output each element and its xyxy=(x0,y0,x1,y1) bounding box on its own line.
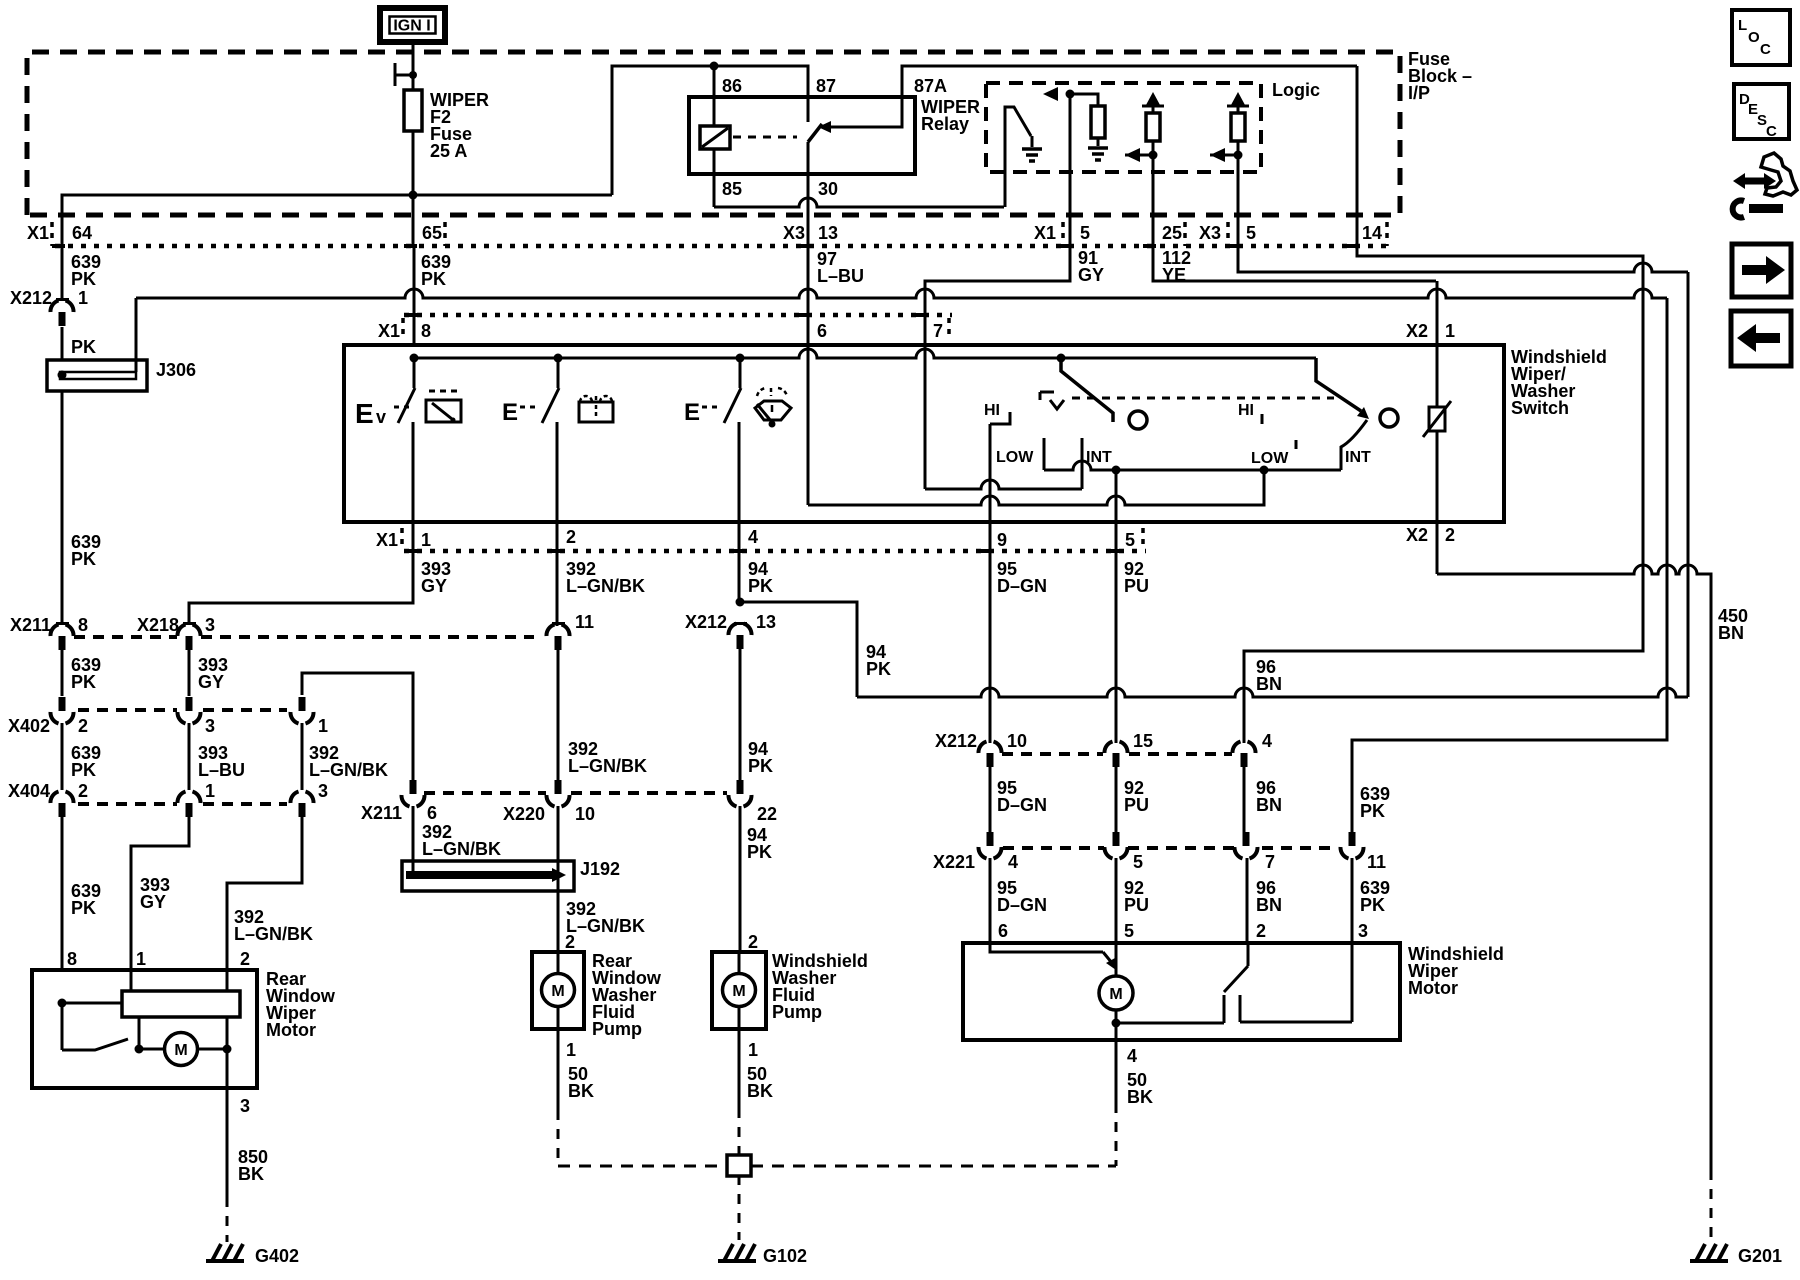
wire 94 PK y697 to logic X3-5 xyxy=(857,688,1688,697)
svg-text:PK: PK xyxy=(747,842,772,862)
relay coil mech dashes xyxy=(733,136,797,139)
rear washer switch S2 xyxy=(542,358,559,423)
svg-text:3: 3 xyxy=(240,1096,250,1116)
svg-text:J192: J192 xyxy=(580,859,620,879)
right contact curve LOW-INT xyxy=(1341,420,1367,470)
logic wire 112 YE to X2-1 xyxy=(1153,155,1436,281)
svg-text:G201: G201 xyxy=(1738,1246,1782,1266)
svg-text:HI: HI xyxy=(984,402,1000,419)
svg-text:8: 8 xyxy=(67,949,77,969)
svg-text:X1: X1 xyxy=(1034,223,1056,243)
rear wiper switch S1 xyxy=(398,358,415,423)
wire 50 BK rear pump xyxy=(557,1029,560,1110)
Rear Window Wiper Motor box xyxy=(32,970,257,1088)
dashed row X402 xyxy=(78,708,177,712)
dashed ground bus xyxy=(558,1165,727,1168)
Windshield Wiper Washer Switch box xyxy=(344,345,1504,522)
mechanical link dashes xyxy=(1072,397,1334,400)
svg-text:2: 2 xyxy=(1445,525,1455,545)
svg-text:L–GN/BK: L–GN/BK xyxy=(568,756,647,776)
svg-text:3: 3 xyxy=(205,716,215,736)
delay thermistor xyxy=(1429,407,1445,431)
wire IGN I to fuse F2 xyxy=(412,42,415,90)
icon double arrow wrench xyxy=(1733,173,1776,189)
logic resistor R2 112 YE xyxy=(1142,106,1164,113)
wire 50 BK windshield pump xyxy=(738,1029,741,1108)
svg-text:86: 86 xyxy=(722,76,742,96)
motor gearbox rect xyxy=(122,991,240,1017)
svg-text:PK: PK xyxy=(71,672,96,692)
svg-text:4: 4 xyxy=(1008,852,1018,872)
svg-text:J306: J306 xyxy=(156,360,196,380)
svg-text:3: 3 xyxy=(205,615,215,635)
wire thermistor to X2-2 xyxy=(1436,431,1439,574)
Fuse Block - I/P dashed outline xyxy=(27,52,1400,215)
svg-text:5: 5 xyxy=(1246,223,1256,243)
switch internal bus xyxy=(414,349,1316,358)
svg-text:PU: PU xyxy=(1124,795,1149,815)
svg-text:11: 11 xyxy=(1367,852,1386,872)
svg-text:X212: X212 xyxy=(10,288,52,308)
wire 392 pin2 to conn 11 xyxy=(556,522,559,626)
svg-text:25: 25 xyxy=(1162,223,1182,243)
windshield washer icon xyxy=(755,401,791,420)
wire junction down to X1-65 xyxy=(412,195,415,246)
wires below X404 xyxy=(61,817,64,971)
svg-text:BK: BK xyxy=(747,1081,773,1101)
svg-text:3: 3 xyxy=(318,781,328,801)
wire 14 to 96 BN net xyxy=(1244,66,1643,743)
wire 94 PK branch to riser xyxy=(740,602,857,697)
svg-text:8: 8 xyxy=(421,321,431,341)
wire 392 below J192 to rear washer pump xyxy=(557,861,560,952)
svg-text:15: 15 xyxy=(1133,731,1153,751)
svg-text:PK: PK xyxy=(71,898,96,918)
svg-text:BK: BK xyxy=(1127,1087,1153,1107)
svg-text:M: M xyxy=(732,983,745,1000)
wire 393 GY pin1 to X218-3 xyxy=(189,522,413,624)
ground G201 xyxy=(1690,1259,1728,1263)
relay switch arm pin30 xyxy=(808,124,822,142)
wire relay 85 to logic switch xyxy=(714,198,1004,207)
connector X212-4 xyxy=(1232,742,1240,754)
wire LOW line y470 xyxy=(1044,461,1341,470)
dotted row X1 top of switch xyxy=(404,313,952,318)
dashed 50 BK to ground bus xyxy=(1115,1103,1118,1166)
svg-text:D–GN: D–GN xyxy=(997,576,1047,596)
svg-text:X2: X2 xyxy=(1406,321,1428,341)
wires into X212 row xyxy=(989,697,992,743)
wire 392 branch X402-1 to X211-6 xyxy=(302,673,413,780)
svg-text:6: 6 xyxy=(817,321,827,341)
svg-text:BN: BN xyxy=(1256,674,1282,694)
svg-text:D–GN: D–GN xyxy=(997,895,1047,915)
svg-text:E: E xyxy=(355,398,374,429)
pin8 wire inside xyxy=(58,999,67,1008)
svg-text:1: 1 xyxy=(748,1040,758,1060)
svg-text:BK: BK xyxy=(568,1081,594,1101)
wire pin7 to INT y489 xyxy=(925,480,1082,489)
svg-text:X402: X402 xyxy=(8,716,50,736)
wire fuse-node to relay 86/87 xyxy=(612,66,808,195)
svg-text:GY: GY xyxy=(421,576,447,596)
svg-text:14: 14 xyxy=(1362,223,1382,243)
svg-text:X211: X211 xyxy=(10,615,51,635)
svg-text:X1: X1 xyxy=(376,530,398,550)
connector X221-5 xyxy=(1113,832,1120,846)
wires between rows xyxy=(989,767,992,832)
svg-text:25 A: 25 A xyxy=(430,141,467,161)
connector X221-7 xyxy=(1243,832,1250,846)
windshield washer switch S3 xyxy=(724,358,741,423)
wire 94 PK pin4 to X212-13 xyxy=(738,522,741,602)
svg-text:C: C xyxy=(1766,123,1777,140)
svg-text:M: M xyxy=(1109,986,1122,1003)
svg-text:1: 1 xyxy=(421,530,431,550)
svg-text:PK: PK xyxy=(1360,801,1385,821)
svg-text:6: 6 xyxy=(998,921,1008,941)
svg-text:I/P: I/P xyxy=(1408,83,1430,103)
svg-text:7: 7 xyxy=(933,321,943,341)
svg-text:GY: GY xyxy=(198,672,224,692)
rear wiper icon xyxy=(426,400,461,422)
svg-text:GY: GY xyxy=(140,892,166,912)
washer bottle icon xyxy=(579,402,613,422)
junction dot xyxy=(409,191,418,200)
svg-text:X212: X212 xyxy=(935,731,977,751)
svg-text:PK: PK xyxy=(866,659,891,679)
dashed row X212 right xyxy=(1002,752,1103,756)
separator ticks xyxy=(50,222,54,246)
power tag IGN I xyxy=(380,8,445,42)
svg-text:PK: PK xyxy=(71,760,96,780)
wire junction to X1-64 xyxy=(62,195,413,246)
fuse holder clip xyxy=(395,63,413,86)
svg-text:87A: 87A xyxy=(914,76,947,96)
svg-text:L–GN/BK: L–GN/BK xyxy=(566,576,645,596)
svg-text:30: 30 xyxy=(818,179,838,199)
logic wire X3-5 to 94 PK riser xyxy=(1238,155,1688,272)
svg-text:6: 6 xyxy=(427,803,437,823)
wire 639 PK right drop to X221-11 xyxy=(1352,298,1667,838)
svg-text:PU: PU xyxy=(1124,895,1149,915)
svg-text:BN: BN xyxy=(1256,795,1282,815)
svg-text:LOW: LOW xyxy=(996,449,1034,466)
relay 87A contact wire xyxy=(831,66,1357,127)
connector X221-4 xyxy=(987,832,994,846)
park switch rear motor xyxy=(62,1039,128,1050)
motor pin4 output xyxy=(1115,1023,1118,1040)
svg-text:5: 5 xyxy=(1125,530,1135,550)
svg-text:BK: BK xyxy=(238,1164,264,1184)
svg-text:L–GN/BK: L–GN/BK xyxy=(422,839,501,859)
splice J192 xyxy=(402,861,574,891)
ground G102 xyxy=(718,1259,756,1263)
svg-text:2: 2 xyxy=(565,932,575,952)
svg-text:22: 22 xyxy=(757,804,777,824)
svg-text:E: E xyxy=(684,399,700,426)
svg-text:X221: X221 xyxy=(933,852,975,872)
svg-text:2: 2 xyxy=(78,781,88,801)
svg-text:10: 10 xyxy=(1007,731,1027,751)
svg-text:C: C xyxy=(1760,41,1771,58)
svg-text:D–GN: D–GN xyxy=(997,795,1047,815)
wiper rotary switch right arm xyxy=(1316,358,1361,411)
svg-text:2: 2 xyxy=(240,949,250,969)
wire pin5 LOW to X1-5 xyxy=(1115,470,1118,743)
svg-text:8: 8 xyxy=(78,615,88,635)
svg-text:X2: X2 xyxy=(1406,525,1428,545)
wire 97LBU pin6 to LOW net y505 xyxy=(808,347,1264,505)
icon right arrow box xyxy=(1732,244,1791,297)
svg-text:L–BU: L–BU xyxy=(817,266,864,286)
connector X404-3 xyxy=(290,792,298,804)
svg-text:X3: X3 xyxy=(1199,223,1221,243)
svg-text:10: 10 xyxy=(575,804,595,824)
dashed row X221 xyxy=(1003,846,1104,850)
svg-text:85: 85 xyxy=(722,179,742,199)
svg-text:2: 2 xyxy=(566,527,576,547)
svg-text:IGN I: IGN I xyxy=(393,18,430,35)
svg-text:1: 1 xyxy=(318,716,328,736)
svg-text:Pump: Pump xyxy=(592,1019,642,1039)
WIPER Relay box xyxy=(689,97,915,174)
switch S1 output pin 1 xyxy=(412,422,415,522)
connector X212-10 xyxy=(978,742,986,754)
wire X2-1 112YE into switch xyxy=(1436,281,1439,407)
wire 639 PK X1-65 to switch pin 8 xyxy=(413,246,416,347)
svg-text:BN: BN xyxy=(1718,623,1744,643)
wires below xyxy=(412,806,415,861)
svg-text:Pump: Pump xyxy=(772,1002,822,1022)
icon LOC box xyxy=(1732,10,1790,65)
motor feed pin6 and pin5 xyxy=(990,943,1103,952)
wires between rows xyxy=(61,723,64,790)
svg-text:2: 2 xyxy=(748,932,758,952)
wire X2-2 450 BN to G201 xyxy=(1437,565,1711,1170)
svg-text:PU: PU xyxy=(1124,576,1149,596)
connector X212-15 xyxy=(1104,742,1112,754)
svg-text:65: 65 xyxy=(422,223,442,243)
motor ground side xyxy=(1115,1010,1118,1023)
connector X221-11 xyxy=(1349,832,1356,846)
wire riser 94 PK right side xyxy=(1687,272,1690,697)
svg-text:X212: X212 xyxy=(685,612,727,632)
svg-text:PK: PK xyxy=(1360,895,1385,915)
svg-text:PK: PK xyxy=(748,576,773,596)
svg-text:v: v xyxy=(376,407,386,427)
svg-text:X404: X404 xyxy=(8,781,50,801)
wire 639 PK J306 riser xyxy=(135,298,138,372)
svg-text:3: 3 xyxy=(1358,921,1368,941)
svg-text:X211: X211 xyxy=(361,803,402,823)
mist contact circle right xyxy=(1380,409,1398,427)
Rear Window Washer Fluid Pump xyxy=(532,952,584,1029)
svg-text:X1: X1 xyxy=(378,321,400,341)
svg-text:M: M xyxy=(174,1042,187,1059)
motor M rear wiper xyxy=(165,1033,198,1066)
svg-text:4: 4 xyxy=(1127,1046,1137,1066)
svg-text:5: 5 xyxy=(1124,921,1134,941)
svg-text:G102: G102 xyxy=(763,1246,807,1266)
relay pin 85 wire xyxy=(713,149,716,207)
svg-text:2: 2 xyxy=(78,716,88,736)
svg-text:PK: PK xyxy=(748,756,773,776)
connector X402-1 xyxy=(299,697,306,711)
ground G402 xyxy=(206,1259,244,1263)
svg-text:G402: G402 xyxy=(255,1246,299,1266)
svg-text:87: 87 xyxy=(816,76,836,96)
relay pin 30 common wire xyxy=(807,142,810,174)
switch S3 output pin 4 xyxy=(738,422,741,522)
svg-text:11: 11 xyxy=(575,612,594,632)
relay pin 86 wire into coil xyxy=(713,66,716,126)
svg-text:13: 13 xyxy=(818,223,838,243)
wire relay 30 down X3-13 xyxy=(807,174,810,347)
dotted row X1 bottom of switch xyxy=(404,549,1146,554)
svg-text:INT: INT xyxy=(1345,449,1371,466)
dashed row y637 xyxy=(74,635,177,639)
svg-text:X1: X1 xyxy=(27,223,49,243)
park switch windshield motor xyxy=(1247,943,1250,966)
mist contact circle left xyxy=(1129,411,1147,429)
svg-text:64: 64 xyxy=(72,223,92,243)
wiper rotary switch left arm xyxy=(1061,358,1113,422)
splice square G102 node xyxy=(727,1155,751,1176)
svg-text:Logic: Logic xyxy=(1272,80,1320,100)
motor M windshield wiper xyxy=(1099,976,1133,1010)
relay coil xyxy=(700,126,730,149)
svg-text:Motor: Motor xyxy=(266,1020,316,1040)
wire pin7 91GY inside switch xyxy=(924,347,927,489)
svg-text:13: 13 xyxy=(756,612,776,632)
svg-text:5: 5 xyxy=(1133,852,1143,872)
svg-text:PK: PK xyxy=(71,549,96,569)
svg-text:Relay: Relay xyxy=(921,114,969,134)
Logic dashed box xyxy=(986,83,1261,172)
logic resistor R3 X3-5 xyxy=(1227,106,1249,113)
fuse F2 WIPER 25A xyxy=(404,90,422,131)
logic resistor R1 to ground xyxy=(1070,94,1098,106)
svg-text:X220: X220 xyxy=(503,804,545,824)
svg-text:X3: X3 xyxy=(783,223,805,243)
connector X404-1 xyxy=(177,792,185,804)
svg-text:4: 4 xyxy=(748,527,758,547)
svg-text:PK: PK xyxy=(71,337,96,357)
logic wire 91 GY X1-5 xyxy=(925,94,1070,347)
svg-text:E: E xyxy=(502,399,518,426)
svg-text:PK: PK xyxy=(421,269,446,289)
icon left arrow box xyxy=(1731,311,1791,366)
icon DESC box xyxy=(1734,84,1789,139)
dashed wire to G201 xyxy=(1710,1170,1713,1242)
wire y195 continues to vertical 612 xyxy=(413,194,612,197)
connector X402-2 xyxy=(59,697,66,711)
svg-text:GY: GY xyxy=(1078,265,1104,285)
wires to wiper motor xyxy=(989,858,992,943)
dotted connector row y246 xyxy=(55,244,1390,249)
switch S2 output pin 2 xyxy=(556,422,559,522)
svg-text:4: 4 xyxy=(1262,731,1272,751)
connector X404-2 xyxy=(50,792,58,804)
svg-text:PK: PK xyxy=(71,269,96,289)
svg-text:O: O xyxy=(1748,29,1760,46)
junction dot at relay 86 xyxy=(710,62,719,71)
wire fuse to junction xyxy=(412,131,415,195)
svg-text:BN: BN xyxy=(1256,895,1282,915)
wires below row xyxy=(61,650,64,696)
svg-text:HI: HI xyxy=(1238,402,1254,419)
svg-text:L–GN/BK: L–GN/BK xyxy=(234,924,313,944)
wire 639 PK J306 to X211-8 xyxy=(61,391,64,624)
svg-text:9: 9 xyxy=(997,530,1007,550)
svg-text:1: 1 xyxy=(1445,321,1455,341)
dashed row y793 xyxy=(424,791,546,795)
svg-text:L–BU: L–BU xyxy=(198,760,245,780)
svg-text:YE: YE xyxy=(1162,265,1186,285)
splice J306 xyxy=(47,360,147,391)
svg-text:L–GN/BK: L–GN/BK xyxy=(566,916,645,936)
svg-text:1: 1 xyxy=(78,288,88,308)
Windshield Wiper Motor box xyxy=(963,943,1400,1040)
svg-text:1: 1 xyxy=(205,781,215,801)
svg-text:LOW: LOW xyxy=(1251,450,1289,467)
svg-text:7: 7 xyxy=(1265,852,1275,872)
logic switch to ground xyxy=(1005,107,1031,207)
wire 639 PK main to right side xyxy=(136,289,1667,298)
svg-text:L: L xyxy=(1738,17,1747,34)
svg-text:Switch: Switch xyxy=(1511,398,1569,418)
dashed row X404 xyxy=(78,802,177,806)
actuator Tv glyph xyxy=(1040,392,1054,400)
svg-text:1: 1 xyxy=(136,949,146,969)
svg-text:L–GN/BK: L–GN/BK xyxy=(309,760,388,780)
svg-text:5: 5 xyxy=(1080,223,1090,243)
connector X402-3 xyxy=(186,697,193,711)
svg-text:M: M xyxy=(551,983,564,1000)
svg-text:X218: X218 xyxy=(137,615,179,635)
svg-text:1: 1 xyxy=(566,1040,576,1060)
wire LOW line to right curve xyxy=(1340,469,1343,472)
pin2/3 wire inside xyxy=(226,1017,229,1088)
svg-text:2: 2 xyxy=(1256,921,1266,941)
wire pin9 HI to X1-9 xyxy=(989,424,992,743)
svg-text:Motor: Motor xyxy=(1408,978,1458,998)
